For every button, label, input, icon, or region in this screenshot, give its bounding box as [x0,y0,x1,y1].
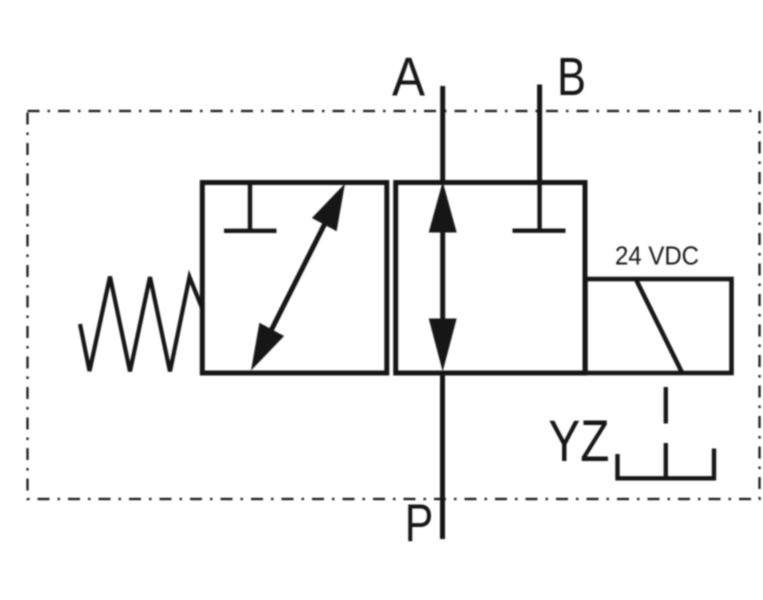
svg-text:A: A [392,46,425,108]
enclosure dash-dot border [28,111,760,499]
vertical double-headed arrow (right square P to A path) [440,222,445,330]
valve body right square [396,183,585,374]
YZ connector bracket [618,449,715,479]
port B line [537,85,542,185]
return spring (left) [80,277,202,372]
diagonal double-headed arrow (left square crossover path) [258,198,338,357]
svg-text:P: P [405,494,434,553]
svg-text:YZ: YZ [548,409,609,474]
valve body left square [202,183,386,374]
solenoid terminal lower stub [664,443,668,478]
solenoid diagonal [637,281,683,373]
svg-text:24 VDC: 24 VDC [615,241,699,271]
blocked port T for B (right square) [513,184,566,231]
vertical arrowhead down tip [429,319,457,372]
blocked port T (left square) [224,184,277,231]
diagonal arrowhead lower tip [251,323,284,371]
port A line [440,86,445,183]
diagonal arrowhead upper tip [312,184,345,232]
svg-text:B: B [557,48,586,107]
solenoid box [586,279,732,373]
solenoid terminal upper stub [664,387,668,424]
port P line [440,372,445,539]
vertical arrowhead up tip [429,182,457,233]
